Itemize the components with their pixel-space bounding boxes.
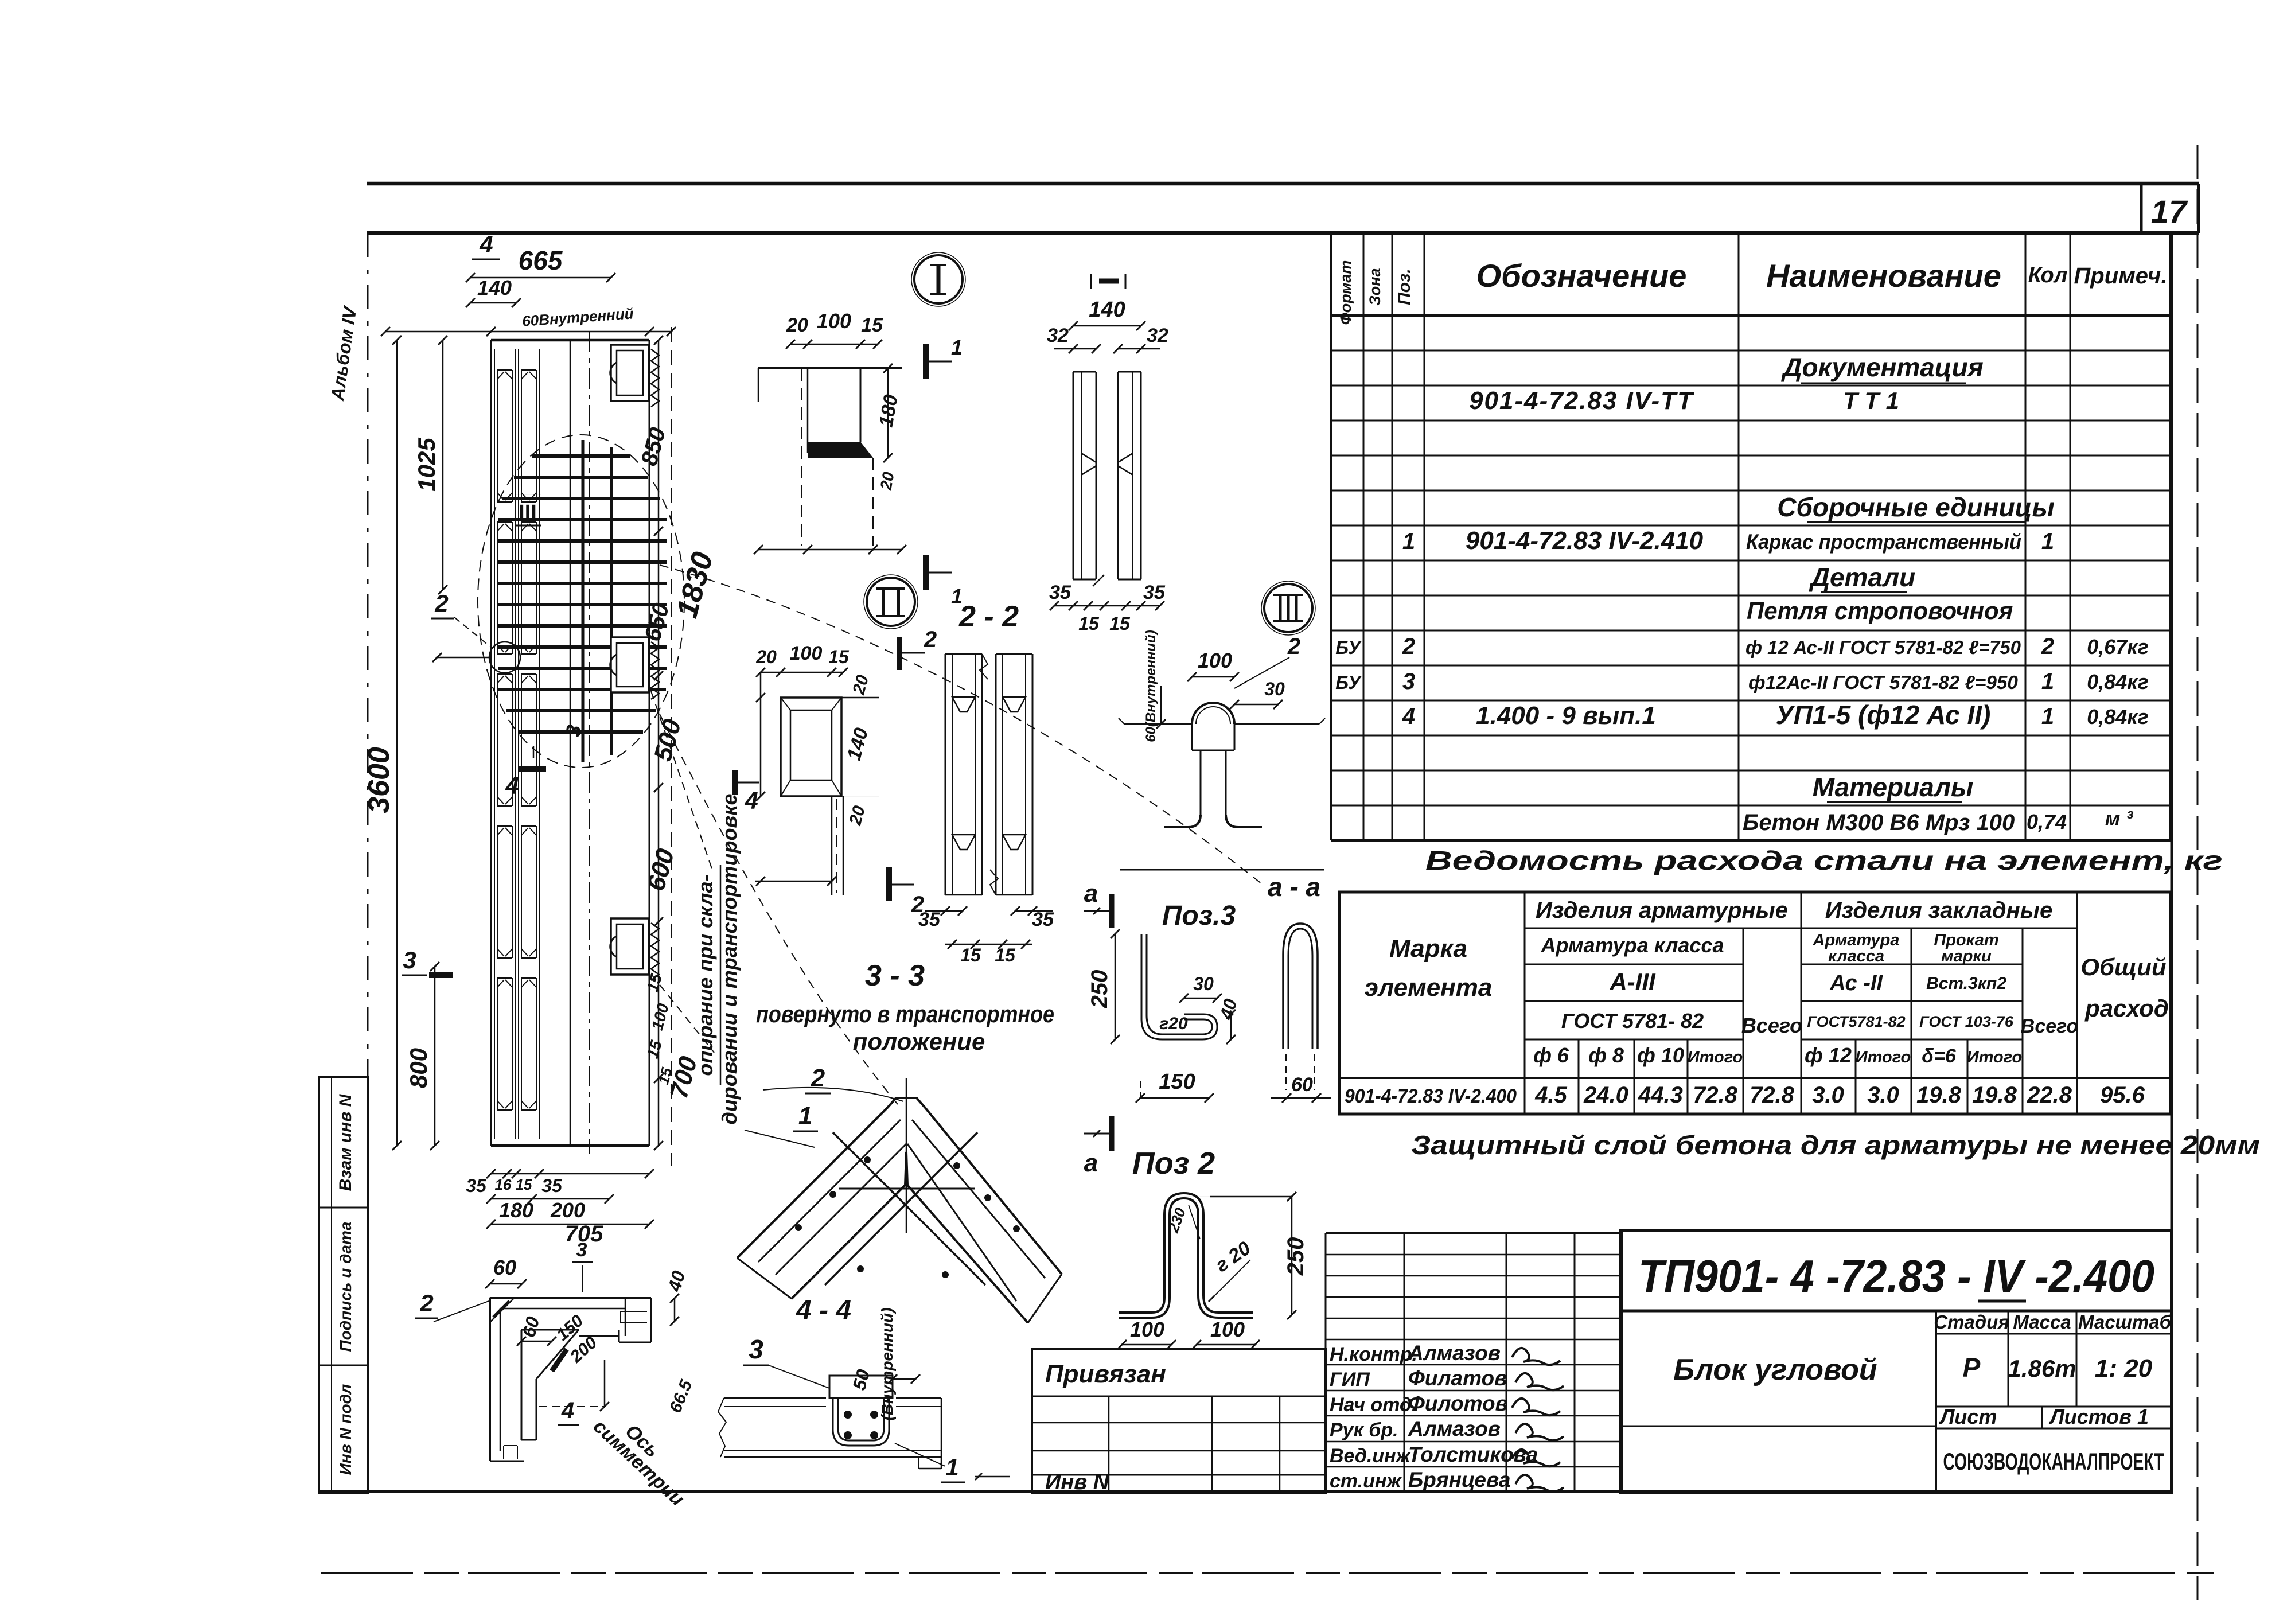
svg-text:4 - 4: 4 - 4 (796, 1295, 851, 1326)
signature table grid (1326, 1233, 1621, 1493)
3-3 leaders 1 and 2 (745, 1064, 903, 1147)
reinforcement bars in ellipse (498, 440, 667, 762)
svg-text:150: 150 (1159, 1070, 1195, 1094)
detail circle 2 on plan (431, 590, 520, 673)
svg-text:20: 20 (755, 647, 777, 667)
svg-text:72.8: 72.8 (1750, 1082, 1795, 1108)
dim 700 (665, 1053, 703, 1101)
dim 1830 (671, 548, 720, 621)
spec row Петля строповочная (1747, 597, 2013, 624)
plan mark 4 top (472, 231, 500, 259)
svg-text:901-4-72.83 IV-2.400: 901-4-72.83 IV-2.400 (1345, 1085, 1517, 1107)
svg-text:3600: 3600 (363, 747, 396, 813)
loop detail labels (743, 1308, 1010, 1482)
svg-text:20: 20 (786, 314, 808, 336)
corner view diagonal tick (552, 1349, 567, 1371)
svg-text:4.5: 4.5 (1534, 1082, 1567, 1108)
поз3 bent bar (1141, 934, 1217, 1039)
svg-text:4: 4 (479, 231, 493, 258)
svg-text:дировании и транспортировке: дировании и транспортировке (718, 794, 741, 1125)
svg-text:Листов 1: Листов 1 (2048, 1405, 2149, 1428)
поз3 dims (1087, 929, 1241, 1044)
signature names (1408, 1341, 1538, 1491)
section mark III on plan (515, 494, 541, 525)
svg-text:0,84кг: 0,84кг (2087, 670, 2149, 694)
svg-text:Рук бр.: Рук бр. (1330, 1419, 1398, 1441)
svg-text:а: а (1084, 879, 1098, 908)
svg-text:Филатов: Филатов (1408, 1366, 1507, 1390)
svg-text:ф 8: ф 8 (1588, 1043, 1624, 1067)
svg-text:1.400 - 9 вып.1: 1.400 - 9 вып.1 (1476, 702, 1656, 730)
lifting loop middle (610, 637, 659, 699)
3-3 chevron outline (737, 1098, 1062, 1323)
svg-text:32: 32 (1147, 325, 1168, 346)
svg-text:Н.контр.: Н.контр. (1330, 1343, 1417, 1365)
transport note line1 (693, 865, 720, 1085)
main frame bottom (319, 1490, 2172, 1493)
svg-text:А-III: А-III (1609, 968, 1656, 995)
svg-text:(Внутренний): (Внутренний) (878, 1308, 896, 1421)
svg-text:15: 15 (861, 314, 883, 336)
svg-text:3 - 3: 3 - 3 (865, 959, 925, 992)
section I cut marks 1 (926, 336, 963, 608)
svg-text:3: 3 (749, 1334, 763, 1364)
svg-text:Общий: Общий (2080, 953, 2166, 980)
plan slot strip left (494, 349, 515, 1139)
svg-text:44.3: 44.3 (1638, 1082, 1683, 1108)
svg-text:1: 20: 1: 20 (2095, 1354, 2153, 1382)
svg-text:60: 60 (1291, 1074, 1313, 1096)
svg-text:БУ: БУ (1335, 672, 1362, 693)
а-а U bar (1283, 924, 1318, 1090)
svg-text:Подпись и дата: Подпись и дата (337, 1222, 354, 1352)
svg-text:1.86т: 1.86т (2008, 1355, 2076, 1382)
svg-text:35: 35 (1049, 582, 1071, 603)
svg-text:35: 35 (1032, 909, 1054, 930)
svg-text:СОЮЗВОДОКАНАЛПРОЕКТ: СОЮЗВОДОКАНАЛПРОЕКТ (1943, 1448, 2164, 1475)
section 1-1 bars (1073, 372, 1141, 579)
svg-text:17: 17 (2151, 193, 2188, 229)
svg-text:180: 180 (499, 1198, 533, 1222)
svg-text:расход: расход (2084, 995, 2169, 1022)
svg-text:250: 250 (1283, 1237, 1308, 1276)
svg-text:Формат: Формат (1337, 260, 1354, 325)
main frame left (faint dashed) (367, 233, 369, 1491)
svg-text:4: 4 (1402, 704, 1415, 729)
steel table grid (1339, 892, 2171, 1114)
svg-text:Изделия закладные: Изделия закладные (1825, 898, 2052, 923)
svg-text:УП1-5 (ф12 Ас II): УП1-5 (ф12 Ас II) (1776, 700, 1991, 730)
spec row Материалы (1813, 772, 1974, 802)
svg-text:2: 2 (1402, 634, 1415, 659)
label 4-4 (796, 1295, 851, 1326)
svg-text:повернуто в транспортное: повернуто в транспортное (756, 1000, 1054, 1027)
section II cut marks 2 (889, 627, 937, 917)
svg-text:1: 1 (951, 336, 963, 359)
svg-text:2 - 2: 2 - 2 (958, 600, 1019, 633)
section marks 4-4 on plan (505, 746, 759, 814)
svg-text:2: 2 (811, 1064, 825, 1092)
balloon II (864, 575, 918, 629)
svg-text:3: 3 (1402, 669, 1415, 694)
outer right sheet edge (dashed) (2197, 145, 2199, 1600)
svg-text:665: 665 (519, 246, 563, 275)
loop detail slab (718, 1398, 941, 1469)
svg-text:Изделия арматурные: Изделия арматурные (1536, 898, 1788, 923)
privyazan table grid (1032, 1349, 1326, 1493)
leader curve to section III detail (660, 565, 1265, 886)
balloon III (1261, 581, 1315, 635)
svg-text:2: 2 (419, 1290, 433, 1317)
svg-text:800: 800 (405, 1048, 432, 1088)
svg-text:Взам инв N: Взам инв N (336, 1093, 355, 1191)
svg-text:4: 4 (505, 772, 519, 799)
svg-text:Поз 2: Поз 2 (1132, 1146, 1215, 1181)
svg-text:Детали: Детали (1809, 562, 1916, 592)
svg-text:Вст.3кп2: Вст.3кп2 (1926, 974, 2006, 993)
album handwriting (327, 304, 361, 402)
svg-text:Филотов: Филотов (1408, 1392, 1508, 1415)
svg-text:Наименование: Наименование (1766, 258, 2001, 294)
svg-text:2: 2 (1287, 634, 1300, 659)
svg-text:2: 2 (924, 627, 937, 652)
svg-text:Примеч.: Примеч. (2074, 263, 2168, 289)
plan slot strip right (519, 349, 539, 1139)
svg-text:35: 35 (918, 909, 941, 930)
svg-text:ст.инж: ст.инж (1330, 1470, 1402, 1492)
svg-text:95.6: 95.6 (2100, 1082, 2145, 1108)
detail ellipse balloon (478, 435, 684, 768)
svg-text:60(Внутренний): 60(Внутренний) (1143, 630, 1159, 742)
signature roles (1330, 1343, 1417, 1492)
svg-text:Толстикова: Толстикова (1408, 1443, 1538, 1466)
loop detail U loop (833, 1398, 889, 1446)
svg-text:Сборочные единицы: Сборочные единицы (1777, 492, 2055, 522)
svg-text:ГОСТ 103-76: ГОСТ 103-76 (1919, 1013, 2014, 1030)
svg-text:15: 15 (1078, 613, 1100, 634)
spec header texts (1337, 258, 2167, 325)
drawing number cell (1621, 1251, 2172, 1311)
svg-text:72.8: 72.8 (1693, 1082, 1738, 1108)
bottom dim row3 705 (486, 1220, 654, 1247)
svg-text:Масса: Масса (2013, 1311, 2071, 1333)
section 1-1 dims (1047, 298, 1168, 634)
svg-text:19.8: 19.8 (1972, 1082, 2017, 1108)
svg-text:0,84кг: 0,84кг (2087, 705, 2149, 729)
svg-text:г20: г20 (1159, 1014, 1188, 1033)
title block outer box (1621, 1230, 2172, 1493)
corner view dims (415, 1239, 696, 1425)
dim 650 (640, 601, 675, 644)
label а-а (1268, 872, 1320, 902)
svg-text:Алмазов: Алмазов (1408, 1417, 1501, 1440)
svg-text:III: III (519, 501, 537, 525)
svg-text:100: 100 (817, 309, 851, 333)
svg-text:Ас -II: Ас -II (1829, 971, 1883, 995)
svg-text:30: 30 (1264, 679, 1285, 699)
svg-text:19.8: 19.8 (1916, 1082, 1962, 1108)
svg-text:2: 2 (434, 590, 448, 617)
label 3 near bars (561, 723, 586, 738)
svg-text:0,74: 0,74 (2027, 810, 2067, 834)
svg-text:δ=6: δ=6 (1922, 1045, 1957, 1067)
spec row Детали (1809, 562, 1916, 592)
right dim chain (654, 336, 663, 1150)
svg-text:Материалы: Материалы (1813, 772, 1974, 802)
svg-text:16 15: 16 15 (494, 1176, 532, 1193)
spec row поз3 loop (1335, 669, 2149, 694)
steel table heading (1425, 846, 2223, 875)
svg-text:100: 100 (790, 642, 823, 664)
spec row Сборочные единицы (1777, 492, 2055, 522)
svg-text:24.0: 24.0 (1583, 1082, 1628, 1108)
steel table data row (1345, 1082, 2145, 1108)
svg-text:ф 12 Ас-II ГОСТ 5781-82 ℓ=750: ф 12 Ас-II ГОСТ 5781-82 ℓ=750 (1745, 637, 2021, 658)
svg-text:2: 2 (2041, 634, 2054, 659)
dim 1025 (413, 336, 447, 594)
svg-text:Поз.: Поз. (1395, 268, 1414, 305)
svg-text:Нач отд.: Нач отд. (1330, 1394, 1417, 1416)
svg-text:марки: марки (1941, 947, 1992, 965)
signatures scribbles (1512, 1348, 1564, 1491)
leader dashes from loops (651, 691, 714, 1053)
svg-text:100: 100 (1210, 1318, 1245, 1341)
title name cell Блок угловой (1621, 1311, 1936, 1493)
spec row поз2 loop (1335, 634, 2149, 659)
svg-text:Итого: Итого (1967, 1048, 2022, 1066)
svg-text:а: а (1084, 1149, 1098, 1177)
leader curve to transport note (660, 714, 898, 1104)
axis of symmetry note (589, 1415, 688, 1510)
svg-text:3: 3 (403, 947, 416, 973)
main frame right (2171, 233, 2173, 1493)
dim 150 (1136, 1070, 1214, 1103)
list row (1936, 1405, 2172, 1428)
svg-text:Кол: Кол (2028, 263, 2068, 287)
svg-text:4: 4 (561, 1398, 574, 1423)
main frame top (367, 231, 2199, 235)
dim 500 (649, 716, 687, 764)
dim 600 (642, 846, 680, 894)
dim 850 (637, 425, 671, 469)
dim 60 внутренний (521, 305, 634, 330)
sheet top edge line (367, 182, 2199, 186)
spec row 901-4-72.83 IV-ТТ / ТТ1 (1469, 387, 1899, 415)
stadia massa masshtab header (1934, 1311, 2172, 1407)
small dims 15 100 15 15 (644, 972, 676, 1086)
corner view outline (490, 1298, 651, 1461)
svg-text:Зона: Зона (1366, 268, 1384, 305)
svg-text:15: 15 (828, 647, 850, 667)
svg-text:Лист: Лист (1939, 1405, 1997, 1428)
svg-text:15: 15 (960, 945, 981, 965)
svg-text:Арматура класса: Арматура класса (1541, 933, 1724, 957)
spec row Каркас пространственный (1402, 527, 2054, 555)
svg-text:ф 10: ф 10 (1637, 1043, 1684, 1067)
svg-text:ф 6: ф 6 (1533, 1043, 1569, 1067)
section III dims (1143, 630, 1300, 742)
section II dims (755, 642, 872, 886)
svg-text:30: 30 (1193, 973, 1214, 994)
dim 140 (466, 276, 521, 307)
label 3-3 (865, 959, 925, 992)
plan top extension dim line (381, 327, 676, 336)
section I dims (754, 309, 906, 554)
svg-text:ГИП: ГИП (1330, 1369, 1370, 1391)
lifting loop lower (610, 918, 659, 980)
note повернуто (756, 1000, 1054, 1055)
svg-text:35: 35 (1143, 582, 1166, 603)
svg-text:35: 35 (466, 1175, 487, 1196)
plan centerline dashdot (589, 332, 590, 1154)
svg-text:Петля строповочноя: Петля строповочноя (1747, 597, 2013, 624)
svg-text:1: 1 (2041, 669, 2054, 694)
svg-text:а - а: а - а (1268, 872, 1320, 902)
stamp text Подпись и дата (337, 1222, 354, 1352)
label Поз.3 (1162, 901, 1236, 931)
cut mark a top (1084, 879, 1112, 928)
stamp text Инв N подл (337, 1384, 354, 1475)
section I detail (758, 368, 902, 546)
label Поз 2 (1132, 1146, 1215, 1181)
svg-text:100: 100 (1130, 1318, 1164, 1341)
svg-text:Итого: Итого (1688, 1048, 1743, 1066)
svg-text:1: 1 (2041, 704, 2054, 729)
svg-text:Марка: Марка (1389, 934, 1467, 963)
а-а dim 60 (1271, 1074, 1331, 1103)
svg-text:Инв N подл: Инв N подл (337, 1384, 354, 1475)
svg-text:Документация: Документация (1780, 352, 1984, 382)
section II detail (781, 698, 879, 895)
поз2 T bar (1119, 1193, 1253, 1318)
svg-text:Брянцева: Брянцева (1408, 1468, 1510, 1491)
svg-text:Бетон М300 В6 Мрз 100: Бетон М300 В6 Мрз 100 (1743, 810, 2015, 835)
steel table header texts (1365, 898, 2169, 1067)
plan view body outline (491, 340, 649, 1146)
svg-text:Каркас пространственный: Каркас пространственный (1746, 530, 2021, 554)
cover note (1411, 1130, 2260, 1160)
svg-text:100: 100 (1198, 649, 1232, 672)
svg-text:Обозначение: Обозначение (1476, 258, 1687, 294)
loop detail protruding top (829, 1376, 893, 1398)
svg-text:Р: Р (1963, 1353, 1981, 1382)
svg-text:140: 140 (1089, 298, 1125, 322)
svg-text:класса: класса (1828, 947, 1884, 965)
dim 800 (405, 962, 439, 1150)
stadia values (1963, 1353, 2153, 1382)
svg-text:250: 250 (1087, 970, 1112, 1009)
svg-text:Ведомость расхода стали на: Ведомость расхода стали на элемент, кг (1425, 846, 2223, 875)
bottom dim row1 35 1615 35 (466, 1169, 654, 1196)
svg-text:Алмазов: Алмазов (1408, 1341, 1501, 1365)
svg-text:22.8: 22.8 (2027, 1082, 2072, 1108)
dim 3600 (363, 336, 402, 1150)
spec row Бетон (1743, 807, 2133, 835)
organization name (1943, 1448, 2164, 1475)
svg-text:1: 1 (945, 1454, 958, 1481)
svg-text:1: 1 (2041, 529, 2054, 554)
spec row Документация (1780, 352, 1984, 383)
plan right reference dashed line (671, 327, 672, 1166)
svg-text:Итого: Итого (1856, 1048, 1911, 1066)
svg-text:140: 140 (477, 276, 512, 299)
svg-text:ГОСТ 5781- 82: ГОСТ 5781- 82 (1561, 1009, 1704, 1033)
svg-text:Инв N: Инв N (1045, 1470, 1110, 1494)
svg-text:20: 20 (877, 470, 898, 492)
svg-text:Блок угловой: Блок угловой (1673, 1353, 1877, 1387)
cut mark a bottom (1084, 1116, 1112, 1177)
bottom sheet scan line (321, 1572, 2214, 1574)
svg-text:32: 32 (1047, 325, 1069, 346)
svg-text:Всего: Всего (1741, 1014, 1802, 1037)
svg-text:Вед.инж: Вед.инж (1330, 1445, 1412, 1467)
svg-text:БУ: БУ (1335, 637, 1362, 658)
svg-text:ГОСТ5781-82: ГОСТ5781-82 (1807, 1013, 1905, 1030)
stamp text Взам инв N (336, 1093, 355, 1191)
svg-text:901-4-72.83 IV-ТТ: 901-4-72.83 IV-ТТ (1469, 387, 1694, 415)
svg-text:3.0: 3.0 (1812, 1082, 1844, 1108)
section 2-2 dims (918, 906, 1054, 965)
specification table grid (1331, 233, 2171, 840)
svg-text:3: 3 (576, 1239, 587, 1261)
поз2 dims (1117, 1192, 1308, 1349)
section 2-2 strips (945, 654, 1032, 895)
svg-text:м ³: м ³ (2105, 807, 2134, 830)
svg-text:Масштаб: Масштаб (2078, 1311, 2172, 1333)
svg-text:1025: 1025 (413, 438, 440, 492)
svg-text:ф 12: ф 12 (1805, 1043, 1852, 1067)
section III detail (1119, 703, 1325, 870)
svg-text:60: 60 (493, 1256, 516, 1279)
svg-text:положение: положение (853, 1028, 985, 1055)
lifting loop top (610, 345, 659, 407)
dim 665 (466, 246, 615, 282)
privyazan text (1045, 1360, 1166, 1388)
svg-text:Т Т 1: Т Т 1 (1843, 387, 1899, 414)
page number box 17 (2141, 184, 2199, 233)
inv number text (1045, 1470, 1110, 1494)
svg-text:ф12Ас-II ГОСТ 5781-82 ℓ=950: ф12Ас-II ГОСТ 5781-82 ℓ=950 (1748, 672, 2019, 693)
svg-text:1: 1 (798, 1102, 812, 1130)
svg-text:200: 200 (550, 1198, 585, 1222)
balloon I (911, 252, 965, 306)
spec row УП1-5 (1402, 700, 2149, 730)
svg-text:35: 35 (541, 1175, 563, 1196)
svg-text:элемента: элемента (1365, 973, 1493, 1002)
svg-text:Всего: Всего (2021, 1015, 2078, 1037)
3-3 reinforcement (758, 1078, 1045, 1301)
label 2-2 (958, 600, 1019, 633)
section mark 3 left (402, 947, 453, 975)
bottom dim row2 180 200 (486, 1194, 614, 1222)
svg-text:15: 15 (1109, 613, 1131, 634)
label 1-1 (1091, 274, 1125, 289)
svg-text:Стадия: Стадия (1934, 1311, 2009, 1333)
svg-text:Защитный слой бетона для а: Защитный слой бетона для арматуры не мен… (1411, 1130, 2260, 1160)
svg-text:901-4-72.83 IV-2.410: 901-4-72.83 IV-2.410 (1466, 527, 1704, 555)
svg-text:0,67кг: 0,67кг (2087, 635, 2149, 659)
svg-text:Привязан: Привязан (1045, 1360, 1166, 1388)
stamp column boxes (319, 1077, 368, 1493)
svg-text:3.0: 3.0 (1867, 1082, 1899, 1108)
svg-text:ТП901- 4 -72.83 - IV -2.400: ТП901- 4 -72.83 - IV -2.400 (1638, 1251, 2154, 1302)
svg-text:1: 1 (1402, 529, 1415, 554)
transport note line2 (718, 794, 741, 1125)
svg-text:опирание при скла-: опирание при скла- (693, 874, 717, 1076)
svg-text:Поз.3: Поз.3 (1162, 901, 1236, 931)
svg-text:15: 15 (995, 945, 1016, 965)
